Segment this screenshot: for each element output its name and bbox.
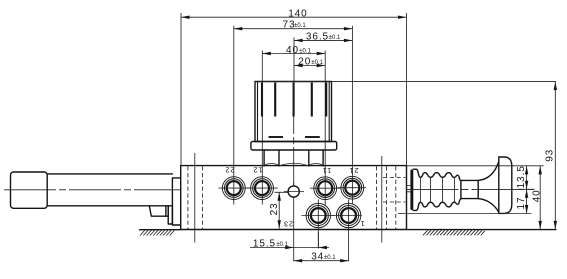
extension line gauge circle center xyxy=(293,38,295,83)
valve body xyxy=(181,166,407,230)
svg-text:23: 23 xyxy=(269,202,280,215)
bellows end edge xyxy=(460,181,462,199)
mount flange xyxy=(172,178,180,225)
port 22 xyxy=(219,177,250,200)
svg-text:1: 1 xyxy=(360,219,365,228)
port 1 (bottom-right) xyxy=(332,200,362,262)
dimension 15.5 xyxy=(250,232,329,249)
right mounting hole hidden edge 2 xyxy=(386,166,388,229)
dimension 40 top xyxy=(262,45,325,56)
port 12 xyxy=(247,177,278,200)
dimension 40 right xyxy=(531,166,542,230)
cylinder barrel xyxy=(47,174,172,206)
extension line port 22 xyxy=(233,26,235,205)
dimension 140 xyxy=(181,9,407,166)
knurl bars xyxy=(262,83,326,117)
dimension 20 xyxy=(294,57,325,68)
extension line port 21 xyxy=(351,26,353,204)
svg-text:36.5: 36.5 xyxy=(306,32,329,43)
hex nut chamfer arcs xyxy=(264,163,323,166)
svg-text:13.5: 13.5 xyxy=(516,165,527,188)
ground hatch left xyxy=(140,230,174,236)
rubber boot bellows bottom xyxy=(413,199,461,211)
right mounting hole centerline xyxy=(381,156,383,243)
dimension 23 vertical xyxy=(269,192,289,229)
left mounting hole centerline xyxy=(194,153,196,243)
ground hatch right xyxy=(423,230,485,236)
bellows fold lines xyxy=(420,177,454,202)
body top extension line to 40 dim xyxy=(407,165,544,167)
handle bottom reference line 17 xyxy=(398,213,532,215)
svg-text:20: 20 xyxy=(298,57,311,68)
knurl bottom dash right xyxy=(305,136,320,138)
handle end cap xyxy=(499,157,512,213)
port 21 xyxy=(338,176,367,199)
boot clamp xyxy=(410,170,413,211)
left mounting hole hidden edge 2 xyxy=(201,166,203,229)
svg-text:12: 12 xyxy=(253,165,263,174)
piston rod to boot xyxy=(407,186,411,192)
svg-text:34: 34 xyxy=(311,252,324,263)
dimension 13.5 xyxy=(516,165,534,213)
dimension 34 xyxy=(294,252,349,263)
right hidden edge 3 xyxy=(395,166,397,229)
ground line right xyxy=(407,229,556,231)
right mounting hole hidden edge 1 xyxy=(376,166,378,229)
svg-text:±0.1: ±0.1 xyxy=(329,35,341,41)
stem-trumpet junction xyxy=(477,180,479,198)
hex nut xyxy=(264,150,323,166)
dimension 17 xyxy=(516,189,528,213)
extension line port 12 xyxy=(261,51,263,205)
dimension 36.5 xyxy=(294,32,352,43)
gauge circle centerline dashdot xyxy=(293,82,295,186)
svg-text:23: 23 xyxy=(283,219,293,228)
bracket foot xyxy=(149,206,166,216)
port 11 xyxy=(310,177,341,200)
bracket block xyxy=(168,206,172,224)
handle trumpet flare xyxy=(478,162,499,213)
svg-text:±0.1: ±0.1 xyxy=(311,60,323,66)
rubber boot bellows top xyxy=(413,169,461,181)
svg-text:±0.1: ±0.1 xyxy=(276,242,288,248)
knob top 93 extension line xyxy=(255,80,556,82)
svg-text:17: 17 xyxy=(516,197,527,210)
main horizontal centerline xyxy=(4,189,180,191)
port bottom-left xyxy=(302,200,335,249)
handle stem xyxy=(461,180,478,198)
hidden bore line lower xyxy=(383,201,406,203)
knob inner edge lines xyxy=(258,82,330,141)
knob flange xyxy=(251,142,337,151)
svg-text:15.5: 15.5 xyxy=(253,238,276,249)
svg-text:93: 93 xyxy=(545,149,556,162)
svg-text:140: 140 xyxy=(288,9,307,20)
svg-text:40: 40 xyxy=(531,189,542,202)
svg-text:40: 40 xyxy=(286,45,299,56)
svg-text:±0.1: ±0.1 xyxy=(294,23,306,29)
svg-text:±0.1: ±0.1 xyxy=(299,48,311,54)
gauge port circle xyxy=(284,183,304,198)
left mounting hole hidden edge 1 xyxy=(187,166,189,229)
svg-text:11: 11 xyxy=(322,166,331,175)
dimension 73 xyxy=(234,20,353,31)
cylinder end cap xyxy=(11,172,48,208)
extension line port 11 xyxy=(324,51,326,206)
svg-text:±0.1: ±0.1 xyxy=(324,255,336,261)
svg-text:21: 21 xyxy=(349,166,359,175)
knob knurled cap xyxy=(255,82,332,142)
svg-text:22: 22 xyxy=(225,165,235,174)
handle centerline xyxy=(407,188,535,190)
gauge circle lower extension xyxy=(293,197,295,261)
dimension 93 xyxy=(545,82,557,230)
ground line left xyxy=(140,229,182,231)
hidden bore line upper xyxy=(383,177,406,179)
knurl bottom dash left xyxy=(269,136,284,138)
bracket washer xyxy=(166,206,168,216)
